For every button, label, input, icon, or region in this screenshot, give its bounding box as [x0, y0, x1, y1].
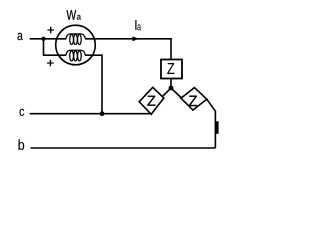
label Wa	[66, 10, 76, 20]
polarity + of current coil	[47, 27, 54, 34]
wire voltage coil to line c	[85, 55, 102, 113]
wattmeter U1 case	[56, 25, 96, 65]
wire Z3 to line b	[207, 99, 216, 148]
node b (phase label)	[19, 139, 25, 150]
wire line b	[31, 147, 216, 149]
impedance Z3 (phase b, diamond)	[181, 88, 207, 111]
voltage coil of wattmeter	[66, 50, 85, 61]
junction node on line c	[100, 111, 105, 116]
impedance Z2 (phase c, diamond)	[139, 87, 164, 114]
wire line a (wattmeter to corner, down to Z)	[85, 39, 171, 60]
node a (phase label)	[18, 33, 23, 40]
wire star point to Z2	[162, 88, 171, 97]
label Ia	[135, 20, 136, 30]
wire Z1 to star point	[170, 79, 172, 89]
thick contact bar on phase b drop	[215, 121, 219, 133]
wire Z2 to line c	[30, 113, 151, 115]
wire line a (left segment into wattmeter)	[30, 38, 66, 40]
star-point junction	[169, 86, 174, 91]
polarity + of voltage coil	[47, 60, 54, 67]
current arrow Ia	[132, 36, 139, 41]
wire star point to Z3	[171, 88, 182, 98]
impedance Z1 (phase a)	[161, 60, 182, 79]
current coil of wattmeter (on line a)	[66, 34, 85, 45]
junction node on line a	[41, 37, 45, 41]
node c (phase label)	[20, 109, 25, 116]
wire voltage-coil branch	[44, 39, 67, 55]
